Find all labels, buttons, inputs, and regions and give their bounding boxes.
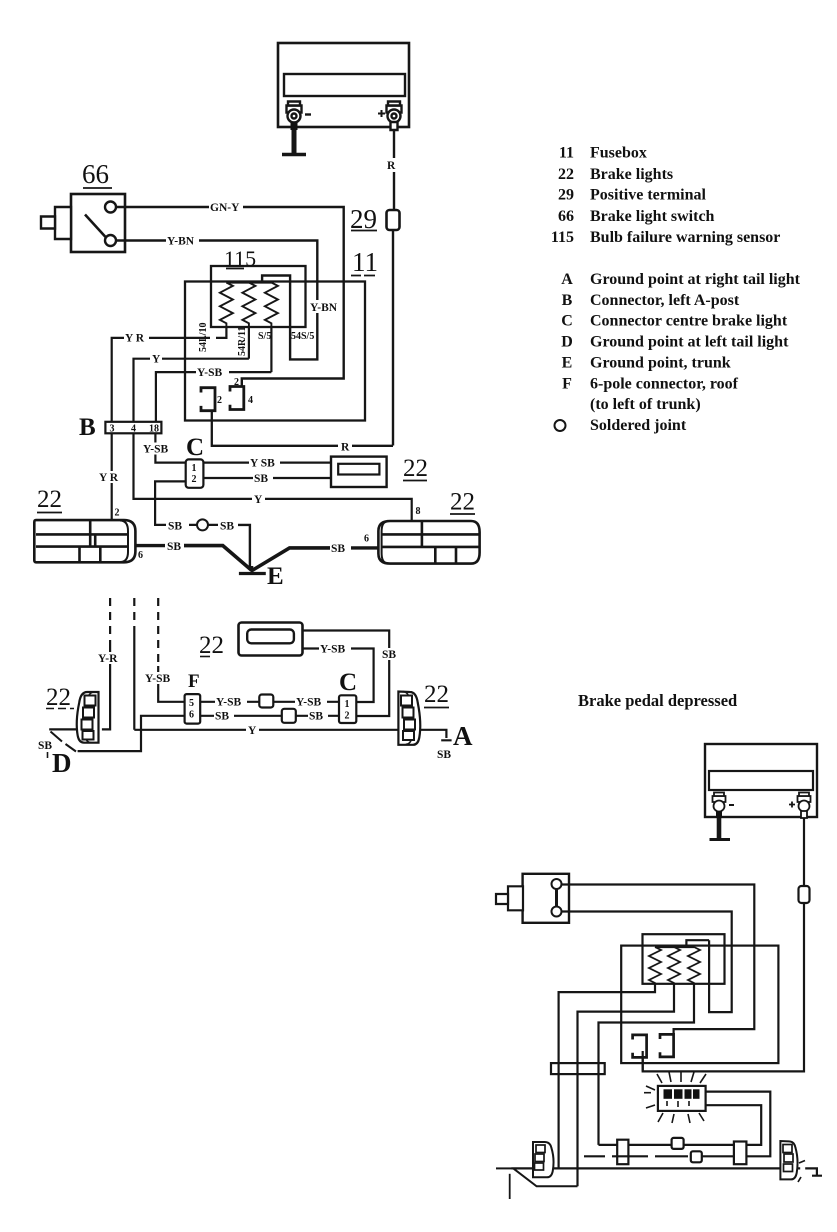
resistor coil 2 (242, 283, 255, 328)
label 22 wagon centre (199, 632, 224, 659)
label Y-BN at sensor (309, 300, 340, 314)
svg-text:6-pole connector, roof: 6-pole connector, roof (590, 375, 739, 392)
svg-text:22: 22 (450, 489, 475, 516)
sensor leg 54R down (248, 327, 250, 359)
svg-text:8: 8 (416, 506, 421, 517)
joint wire right (189, 524, 218, 526)
connector C (flow) (734, 1142, 747, 1165)
svg-text:22: 22 (37, 486, 62, 513)
ground point E bar (251, 566, 254, 573)
svg-text:Y-SB: Y-SB (197, 367, 222, 379)
battery ground (flow) (717, 818, 722, 838)
svg-text:6: 6 (138, 550, 143, 561)
svg-text:54S/5: 54S/5 (291, 331, 314, 342)
sensor box (flow) (643, 934, 725, 984)
svg-text:E: E (267, 563, 284, 590)
label SB (F6 left) (214, 710, 234, 723)
label Y-R (124, 332, 149, 345)
label Y-SB (F5 left) (215, 696, 247, 709)
wire Y from B4 down and across to right lamp pin 8 (134, 433, 412, 521)
svg-text:C: C (561, 313, 573, 330)
battery negative terminal (flow) (713, 793, 726, 819)
label Y-SB (wagon centre) (319, 643, 351, 656)
wire Y-SB from C1 to centre brake light (203, 462, 331, 464)
3-pole connector (flow) (551, 1063, 605, 1074)
sensor rail (flow) (655, 946, 694, 948)
label 22 centre (403, 455, 428, 482)
battery minus sign (305, 113, 311, 115)
sensor top rail (226, 281, 271, 283)
svg-text:(to left of trunk): (to left of trunk) (590, 396, 701, 413)
svg-text:Fusebox: Fusebox (590, 145, 647, 162)
svg-text:22: 22 (199, 632, 224, 659)
label Y R (lower) (98, 471, 124, 484)
bottom wire to right lamp (flow) (512, 1168, 823, 1175)
legend block (551, 145, 801, 435)
svg-text:C: C (186, 434, 204, 461)
label 22 right lamp (450, 489, 475, 516)
connector F (flow) (617, 1140, 628, 1165)
svg-text:18: 18 (149, 424, 159, 435)
fuse clip 4 (230, 387, 244, 410)
svg-text:29: 29 (350, 204, 377, 234)
inline connector (Y-SB) (259, 695, 273, 708)
wire R continued (flow) (643, 903, 804, 1071)
svg-text:Y-SB: Y-SB (145, 673, 170, 685)
ground D diagonal (51, 732, 77, 752)
svg-text:2: 2 (115, 508, 120, 519)
wire fuse2 to R line (212, 410, 338, 446)
wire SB from right lamp pin 6 to ground E (351, 546, 378, 549)
svg-text:Y-BN: Y-BN (167, 236, 195, 248)
legend soldered joint circle (555, 420, 566, 431)
wire centre lamp SB return (flow) (702, 1092, 770, 1157)
battery negative terminal (287, 102, 302, 131)
svg-text:F: F (188, 671, 200, 692)
wire R horizontal to 29 riser (352, 445, 393, 447)
resistor coil 2 (flow) (668, 947, 680, 984)
svg-text:2: 2 (345, 711, 350, 722)
label Y-SB (wagon riser) (144, 672, 177, 685)
wagon diagram: dashed riser Y-R (109, 598, 111, 644)
wagon wire Y to right lamp and ground A (134, 730, 451, 741)
label 22 wagon right (424, 681, 449, 708)
wagon right lamp 22 (398, 692, 420, 745)
svg-text:Y-SB: Y-SB (320, 644, 345, 656)
svg-text:R: R (341, 442, 350, 454)
svg-text:SB: SB (220, 520, 234, 532)
wire switch top to fuse 4 (flow) (562, 885, 754, 1035)
svg-text:C: C (339, 669, 357, 696)
label Y SB (249, 457, 280, 470)
svg-text:1: 1 (192, 463, 197, 474)
svg-text:Bulb failure warning sensor: Bulb failure warning sensor (590, 229, 780, 246)
svg-text:GN-Y: GN-Y (210, 202, 240, 214)
svg-text:SB: SB (167, 541, 181, 553)
svg-text:SB: SB (168, 520, 182, 532)
light rays of lit lamp (644, 1071, 706, 1123)
label Y-SB (F5 right) (295, 696, 327, 709)
label 11 (351, 247, 378, 277)
wire Y-SB from B18 to C pin 1 (155, 433, 185, 462)
plus sign (flow) (789, 802, 795, 808)
fuse clip 2 (flow) (633, 1035, 647, 1058)
label 66 (82, 159, 112, 189)
resistor coil 1 (220, 283, 233, 328)
resistor coil 3 (flow) (688, 947, 700, 984)
wire Y-SB to sensor (156, 372, 272, 422)
right brake light cluster 22 (378, 521, 479, 564)
wire SB from left lamp pin 6 (136, 544, 166, 547)
svg-text:Ground point, trunk: Ground point, trunk (590, 354, 731, 371)
wagon centre lamp Y-SB wire (303, 649, 374, 703)
wire SB from C2 down to soldered joint line (155, 481, 186, 525)
wire V2 to centre lamp (flow) (599, 1105, 762, 1145)
battery (flow diagram) (705, 744, 817, 817)
svg-text:66: 66 (82, 159, 109, 189)
left lamp (flow) (533, 1142, 554, 1177)
svg-text:29: 29 (558, 187, 574, 204)
inline connector SB (flow) (691, 1151, 702, 1162)
svg-text:22: 22 (424, 681, 449, 708)
wire fuse2 down to R (flow) (642, 1051, 644, 1071)
wire R from battery plus (393, 130, 395, 209)
svg-text:Y-SB: Y-SB (296, 697, 321, 709)
svg-text:Y-BN: Y-BN (310, 302, 338, 314)
svg-text:11: 11 (559, 145, 574, 162)
label 115 (224, 246, 256, 271)
wire SB from C2 to centre brake light (203, 477, 331, 479)
fusebox (flow) (621, 946, 778, 1064)
svg-text:S/5: S/5 (258, 331, 271, 342)
brake switch (flow, closed) (496, 874, 569, 923)
wagon left lamp 22 (77, 692, 99, 743)
label 29 (350, 204, 377, 234)
connector 29 box (387, 210, 400, 230)
label Y-SB (above C) (142, 443, 173, 456)
label SB (F6 right) (308, 710, 328, 723)
svg-text:115: 115 (551, 229, 574, 246)
svg-text:Y SB: Y SB (250, 458, 275, 470)
svg-text:SB: SB (309, 711, 323, 723)
svg-text:Y: Y (254, 494, 263, 506)
svg-text:4: 4 (248, 395, 253, 406)
battery plus sign (378, 110, 385, 117)
wagon centre brake light (239, 623, 303, 656)
svg-text:B: B (79, 414, 96, 441)
left brake light cluster 22 (34, 520, 135, 562)
svg-text:SB: SB (215, 711, 229, 723)
wire Y (134, 359, 249, 422)
sensor leg 3 to V2 (flow) (599, 984, 695, 1145)
label SB (centre lamp) (253, 472, 273, 485)
wagon: dashed riser Y-SB (157, 598, 159, 666)
svg-text:Brake pedal depressed: Brake pedal depressed (578, 691, 737, 710)
svg-text:4: 4 (131, 424, 136, 435)
svg-text:Positive terminal: Positive terminal (590, 187, 707, 204)
svg-text:SB: SB (254, 473, 268, 485)
connector F box (185, 694, 201, 724)
wire R battery to fuse (flow) (803, 818, 805, 886)
right lamp (flow) (780, 1141, 797, 1179)
soldered joint (197, 519, 208, 530)
battery top (278, 43, 409, 127)
tick at flow D ground (509, 1174, 511, 1199)
label Y-R (wagon) (97, 652, 124, 665)
svg-text:Y R: Y R (99, 472, 119, 484)
sensor leg S/5 down (270, 327, 272, 372)
svg-text:D: D (52, 748, 72, 778)
wagon SB wire from ground D to F6 (78, 716, 185, 751)
svg-text:Soldered joint: Soldered joint (590, 417, 687, 434)
svg-text:Y: Y (152, 354, 161, 366)
sensor leg 54L to Y-R wire (216, 327, 226, 338)
wire Y-R from B3 to left lamp pin 2 (111, 433, 113, 520)
wire GN-Y from switch to fusebox (116, 207, 344, 387)
centre brake light box (331, 457, 387, 487)
label Y (wagon) (246, 724, 259, 737)
wire SB to ground E (left diagonal) (184, 546, 252, 571)
resistor coil 3 (265, 283, 278, 328)
svg-text:D: D (561, 333, 573, 350)
battery plus terminal (387, 102, 402, 131)
apostrophe marks near right lamp ground (flow) (798, 1161, 805, 1183)
svg-text:2: 2 (217, 395, 222, 406)
battery ground stem (292, 130, 297, 153)
bulb failure sensor 115 box (211, 266, 306, 327)
sensor leg 1 to V0 (flow) (559, 984, 655, 1169)
inline connector Y-SB (flow) (672, 1138, 684, 1149)
svg-text:66: 66 (558, 208, 574, 225)
label Y-BN (switch side) (166, 235, 199, 248)
svg-text:2: 2 (234, 377, 239, 388)
svg-text:54R/11: 54R/11 (237, 327, 248, 356)
fusebox 11 (185, 282, 365, 421)
wire from joint to ground junction (238, 525, 250, 568)
fuse clip 4 (flow) (660, 1034, 674, 1057)
svg-text:22: 22 (46, 684, 71, 711)
wire SB F6 to C2 (200, 715, 339, 717)
sensor leg 2 to V1 (flow) (578, 984, 675, 1187)
ground D structure (flow) (513, 1168, 577, 1186)
wire R below 29 to fusebox (392, 230, 394, 446)
resistor coil 1 (flow) (649, 947, 661, 984)
wagon: dashed riser Y (133, 598, 135, 628)
svg-text:B: B (562, 292, 573, 309)
svg-text:Connector, left A-post: Connector, left A-post (590, 292, 740, 309)
svg-text:R: R (387, 160, 396, 172)
connector C box (wagon) (339, 695, 356, 723)
svg-text:Y-SB: Y-SB (143, 444, 168, 456)
brake light switch 66 (41, 194, 125, 252)
svg-text:SB: SB (38, 740, 52, 752)
fuse clip 2 (201, 388, 215, 411)
wire Y-BN from switch to sensor 54S (116, 241, 317, 360)
label SB (wagon centre) (381, 648, 400, 661)
svg-text:Ground point at left tail ligh: Ground point at left tail light (590, 333, 789, 350)
wire SB right diagonal to ground (253, 548, 331, 570)
wire Y-R (112, 338, 210, 422)
svg-text:22: 22 (558, 166, 574, 183)
svg-text:5: 5 (189, 698, 194, 709)
svg-text:22: 22 (403, 455, 428, 482)
centre brake light lit (flow) (658, 1086, 706, 1111)
tick mark at D (47, 752, 49, 758)
label 22 wagon left (46, 684, 74, 711)
wire Y-SB F5 to C1 (200, 701, 339, 703)
svg-text:Y-R: Y-R (98, 653, 118, 665)
svg-text:Brake light switch: Brake light switch (590, 208, 715, 225)
label Y (at sensor) (150, 353, 162, 366)
svg-text:A: A (453, 721, 473, 751)
wagon centre lamp SB wire (top) (303, 631, 390, 717)
svg-text:2: 2 (192, 474, 197, 485)
svg-text:3: 3 (110, 424, 115, 435)
svg-text:E: E (562, 354, 573, 371)
wagon left lamp wires and ground D (49, 728, 78, 730)
sensor jog (flow) (686, 940, 709, 947)
wire switch bottom to sensor 54S (flow) (562, 912, 732, 1013)
svg-text:A: A (561, 271, 573, 288)
svg-text:Connector centre brake light: Connector centre brake light (590, 313, 788, 330)
inline connector on R (flow) (799, 886, 810, 903)
svg-text:Ground point at right tail lig: Ground point at right tail light (590, 271, 801, 288)
minus sign (flow) (729, 804, 734, 806)
svg-text:Y R: Y R (125, 333, 145, 345)
svg-text:Y-SB: Y-SB (216, 697, 241, 709)
svg-text:6: 6 (189, 710, 194, 721)
svg-text:1: 1 (345, 699, 350, 710)
label 22 left lamp (37, 486, 62, 513)
svg-text:F: F (562, 375, 572, 392)
inline connector (SB) (282, 709, 296, 723)
battery ground bar (282, 153, 306, 156)
svg-text:SB: SB (382, 649, 396, 661)
svg-text:Brake lights: Brake lights (590, 166, 673, 183)
wire SB continued to V1 (flow) (584, 1155, 688, 1157)
battery positive terminal (flow) (798, 793, 811, 819)
label GN-Y (209, 201, 243, 214)
connector C box (186, 459, 204, 487)
svg-text:115: 115 (224, 246, 256, 271)
svg-text:SB: SB (331, 543, 345, 555)
label Y (long wire) (252, 493, 265, 506)
svg-text:11: 11 (352, 247, 378, 277)
svg-text:SB: SB (437, 749, 451, 761)
svg-text:Y: Y (248, 725, 257, 737)
label Y-SB (at fusebox) (196, 366, 229, 379)
connector B box (105, 422, 161, 435)
svg-text:6: 6 (364, 534, 369, 545)
